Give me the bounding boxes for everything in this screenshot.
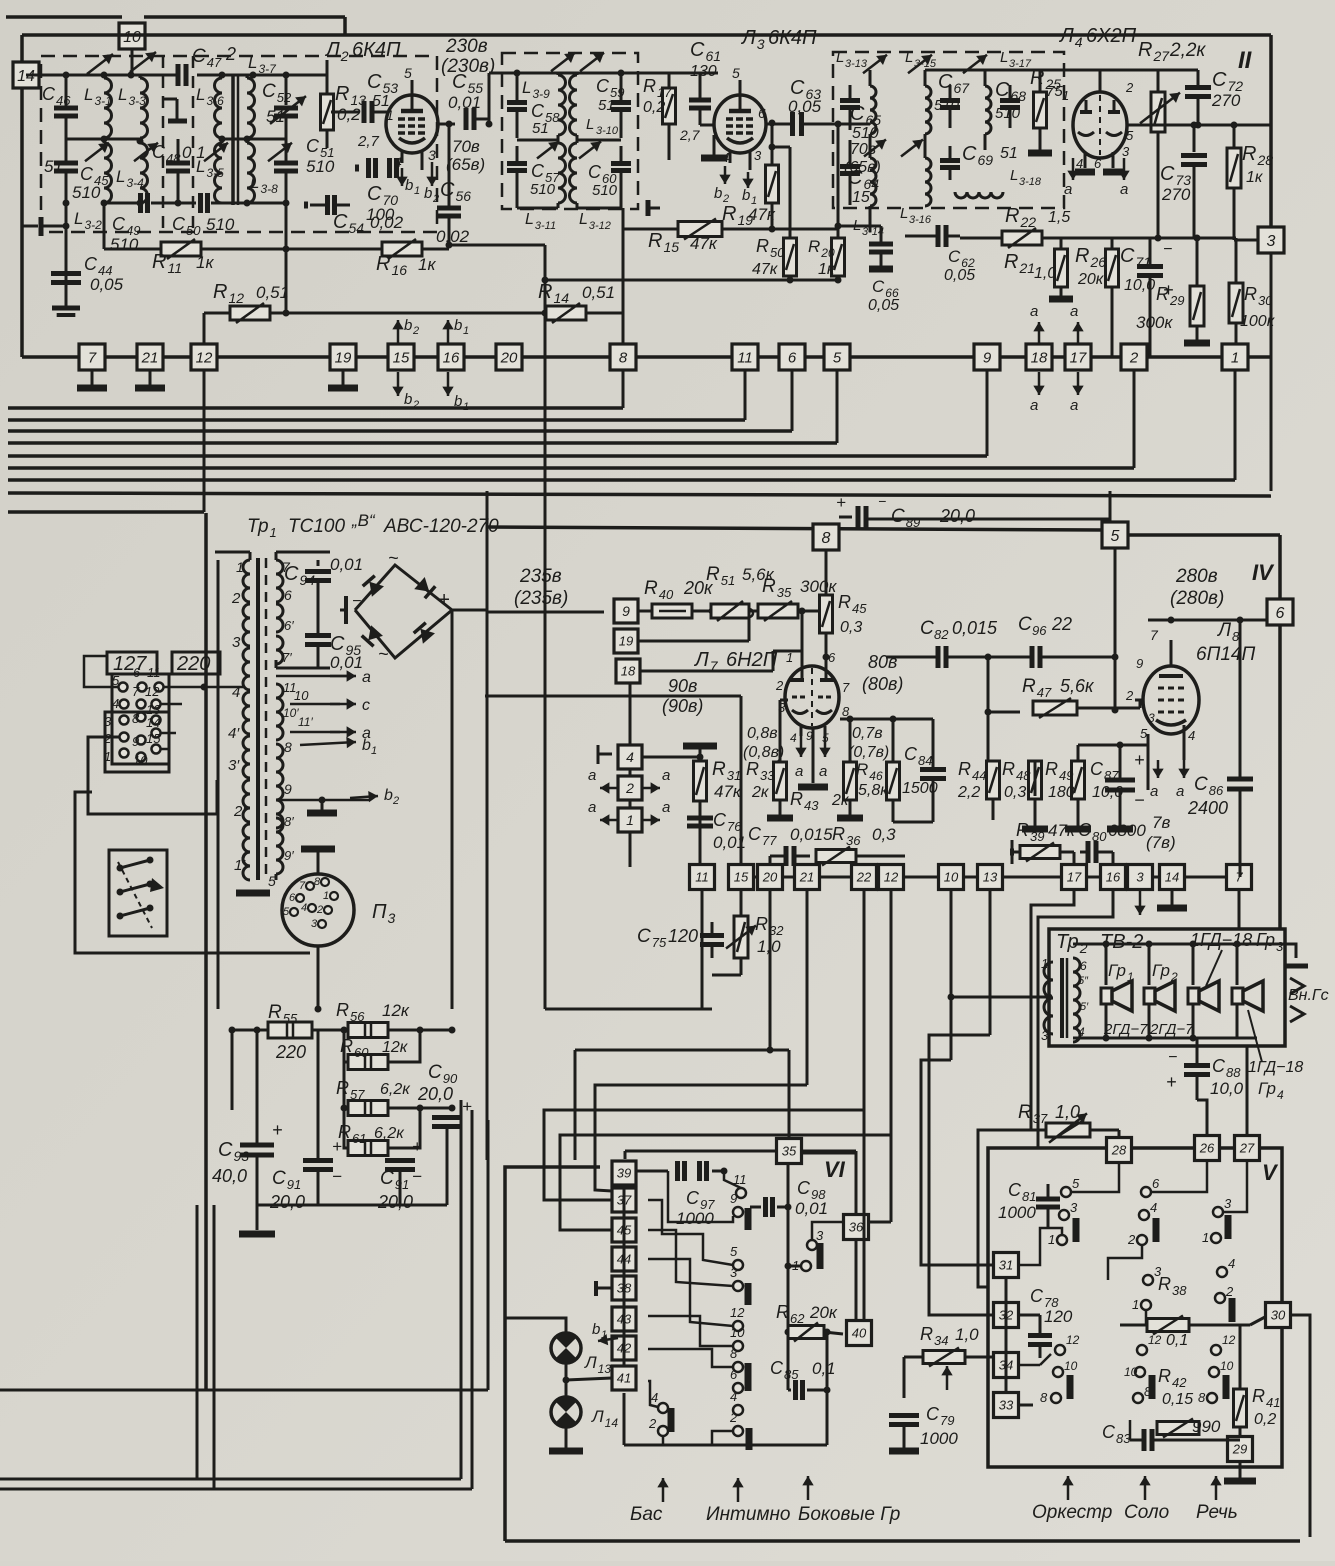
svg-text:12: 12	[1222, 1333, 1236, 1347]
svg-text:„В“: „В“	[351, 511, 376, 530]
switch contact 9 VI	[733, 1207, 743, 1217]
wire box16 top	[1112, 852, 1115, 864]
wire bus to amp box5	[1109, 491, 1112, 522]
svg-text:12: 12	[196, 349, 213, 366]
capacitor C56	[437, 206, 461, 211]
svg-text:11: 11	[695, 870, 709, 885]
Tr1 tap 5	[275, 874, 278, 880]
svg-text:−: −	[1163, 241, 1172, 258]
P3 gnd top	[317, 852, 320, 874]
terminal box 1	[1222, 344, 1248, 370]
svg-text:8: 8	[619, 349, 628, 366]
svg-text:18: 18	[621, 664, 636, 679]
Tr1 winding 9	[276, 786, 283, 828]
terminal box 21	[137, 344, 163, 370]
section II right border	[1269, 35, 1273, 240]
svg-text:21: 21	[799, 870, 814, 885]
capacitor C91 right	[385, 1158, 415, 1163]
svg-text:VI: VI	[824, 1157, 846, 1182]
svg-text:27: 27	[1239, 1141, 1255, 1156]
mains frame left	[75, 792, 310, 953]
svg-text:16: 16	[1106, 870, 1121, 885]
wire box15 up and left	[740, 696, 743, 864]
variable arrow L3-5	[204, 143, 228, 161]
svg-text:4: 4	[1228, 1256, 1235, 1271]
wire P3 to winding	[260, 860, 276, 866]
terminal box 6 amp	[1267, 599, 1293, 625]
svg-text:2: 2	[775, 678, 784, 693]
svg-text:V: V	[1262, 1160, 1279, 1185]
svg-text:1500: 1500	[902, 780, 938, 797]
svg-text:15: 15	[393, 349, 410, 366]
svg-text:a: a	[1030, 303, 1038, 320]
gnd C79	[889, 1448, 919, 1455]
svg-text:1: 1	[786, 650, 793, 665]
a arrows term 17	[1077, 322, 1080, 345]
arrow Orkestr	[1067, 1476, 1070, 1500]
svg-text:12: 12	[730, 1305, 745, 1320]
svg-text:19: 19	[335, 349, 352, 366]
svg-text:3: 3	[1224, 1196, 1232, 1211]
svg-text:2,2: 2,2	[957, 784, 980, 801]
terminal box 1 amp	[618, 808, 642, 832]
svg-text:300к: 300к	[800, 577, 837, 596]
svg-text:270: 270	[1211, 91, 1241, 110]
Tr1 winding 8p	[276, 818, 283, 846]
wire box17 drop jog	[1031, 890, 1074, 1130]
capacitor C59	[611, 100, 631, 105]
wire from box10 down	[131, 48, 134, 75]
svg-text:0,05: 0,05	[90, 275, 124, 294]
a arrows term 18	[1038, 322, 1041, 345]
capacitor C57	[507, 161, 527, 166]
variable arrows det	[863, 55, 887, 73]
bridge output wire right	[451, 609, 453, 611]
wire C77 R36 net	[769, 856, 772, 867]
wire contact 11 stem	[724, 1171, 741, 1188]
terminal box 27	[1235, 1136, 1260, 1161]
svg-text:31: 31	[999, 1258, 1013, 1273]
svg-text:АВС-120-270: АВС-120-270	[383, 516, 499, 537]
amp terminal box 21	[795, 865, 820, 890]
resistor R41	[1234, 1389, 1247, 1427]
capacitor C50	[198, 193, 203, 213]
capacitor C80	[1086, 841, 1091, 863]
svg-text:9′: 9′	[284, 848, 294, 863]
wire to R37 line	[1009, 1129, 1011, 1131]
amp terminal box 16	[1101, 865, 1126, 890]
amp terminal box 22	[852, 865, 877, 890]
capacitor C61	[689, 98, 711, 103]
R32 pot	[734, 916, 748, 958]
lamp wires	[565, 1363, 568, 1397]
wire box12 to box36	[869, 1221, 891, 1224]
svg-text:a: a	[1150, 783, 1158, 800]
wire left long vertical	[204, 513, 208, 1390]
wire amp drop 3	[863, 890, 866, 1321]
frame around selector	[74, 650, 76, 653]
svg-text:b: b	[454, 317, 462, 334]
capacitor C94	[317, 560, 320, 566]
svg-text:70в: 70в	[850, 141, 876, 158]
wire C91 bottom bus	[317, 1170, 320, 1205]
svg-text:Оркестр: Оркестр	[1032, 1502, 1112, 1523]
bus line 4	[8, 441, 837, 445]
svg-text:a: a	[1064, 181, 1072, 198]
svg-text:510: 510	[995, 105, 1021, 122]
svg-text:L: L	[905, 49, 913, 66]
wire term6 drop	[791, 370, 794, 431]
svg-text:5″: 5″	[1078, 975, 1089, 987]
resistor R19	[766, 165, 779, 203]
terminal box 14	[13, 62, 39, 88]
wire x472 vertical	[471, 1110, 474, 1489]
svg-text:510: 510	[592, 182, 618, 199]
coil L3-9	[558, 75, 566, 135]
wire R12-R14 row	[290, 312, 548, 315]
Tr1 primary winding 4	[243, 692, 250, 734]
svg-text:13: 13	[983, 870, 998, 885]
leader line Gr4	[1248, 1010, 1262, 1062]
svg-text:L: L	[836, 49, 844, 66]
wire box17 amp top	[1073, 852, 1076, 864]
coil L3-18 horizontal	[955, 192, 1003, 198]
wire R55 network top link	[343, 1009, 345, 1030]
wire R17 to grid network	[669, 72, 718, 75]
svg-text:5′: 5′	[1080, 1001, 1089, 1013]
capacitor C93	[240, 1143, 274, 1148]
svg-text:3-10: 3-10	[596, 125, 619, 137]
svg-text:11: 11	[733, 1172, 747, 1187]
wire C97 bypass loop	[668, 1171, 733, 1222]
svg-text:(7в): (7в)	[1146, 833, 1176, 852]
wire contact3 to box36	[812, 1222, 843, 1240]
svg-text:6: 6	[1276, 605, 1285, 622]
wire R38 to box30	[1250, 1317, 1265, 1325]
wire bridge plus down	[451, 610, 454, 1009]
wire box10 route to box31	[921, 1060, 993, 1265]
resistor R22	[960, 237, 1005, 240]
tube U4 L7 6N2P	[785, 666, 839, 728]
svg-text:15: 15	[852, 189, 870, 206]
capacitor C49	[137, 200, 144, 207]
Tr1 secondary 6p 7p	[276, 636, 283, 664]
speaker bus bottom	[1073, 1037, 1257, 1040]
terminal box 36	[844, 1215, 869, 1240]
wire x461 vertical	[460, 1100, 463, 1479]
capacitor C55	[464, 108, 469, 130]
amp terminal box 15	[729, 865, 754, 890]
svg-text:0,05: 0,05	[788, 97, 822, 116]
capacitor C77	[784, 846, 789, 866]
speaker section frame	[1049, 929, 1285, 1046]
svg-text:0,01: 0,01	[795, 1199, 828, 1218]
coil L3-8	[247, 143, 255, 203]
switch contact col mid	[1137, 1345, 1147, 1355]
wire row139 left	[66, 138, 140, 141]
svg-text:7: 7	[299, 880, 306, 892]
svg-text:7: 7	[842, 680, 850, 695]
svg-text:235в: 235в	[519, 566, 562, 587]
wire R28 to box3	[1233, 188, 1236, 240]
svg-text:4: 4	[1150, 1200, 1157, 1215]
wire IF2 bottom joins	[517, 139, 558, 142]
svg-text:3-13: 3-13	[845, 58, 868, 70]
svg-text:1: 1	[1041, 956, 1048, 971]
tube U2 L3 6K4P	[714, 95, 766, 153]
selector box A	[112, 674, 169, 764]
capacitor C65	[840, 98, 860, 103]
svg-text:5: 5	[1126, 128, 1134, 143]
coil L3-17	[985, 86, 991, 134]
svg-text:20,0: 20,0	[417, 1084, 453, 1104]
svg-text:b: b	[592, 1321, 600, 1338]
resistor R50	[772, 146, 790, 149]
bus line 3	[8, 429, 792, 433]
svg-text:510: 510	[934, 97, 960, 114]
resistor R12	[204, 312, 232, 315]
arrow Intimno	[737, 1478, 740, 1502]
wire x545 long drop	[544, 313, 547, 1009]
label 220 box	[172, 652, 220, 674]
capacitor C89	[839, 516, 852, 519]
svg-text:L: L	[1010, 167, 1018, 184]
wire box18 to grid1	[640, 670, 773, 673]
wire node P3 bottom	[315, 1006, 322, 1013]
Tr2 sec top lead	[1072, 944, 1074, 958]
coil L3-6	[215, 78, 222, 138]
wire contact1 net	[788, 1265, 806, 1268]
svg-text:3: 3	[104, 714, 112, 729]
wire left frame x206 bottom	[197, 1204, 214, 1206]
power to bottom links	[460, 1099, 462, 1101]
svg-text:−: −	[412, 1167, 422, 1186]
svg-text:47к: 47к	[752, 261, 779, 278]
svg-text:80в: 80в	[868, 652, 897, 672]
Tr2 secondary	[1073, 958, 1080, 1000]
svg-text:8: 8	[822, 530, 831, 547]
terminal box 41	[612, 1366, 636, 1390]
resistor R45	[820, 595, 833, 633]
dashed box det coils	[833, 52, 1064, 208]
svg-text:510: 510	[530, 181, 556, 198]
wire C88 down to box26	[1197, 1100, 1207, 1135]
resistor R44	[987, 761, 1000, 799]
svg-text:0,15: 0,15	[1162, 1391, 1193, 1408]
capacitor C71	[1149, 238, 1152, 264]
wire below box36	[855, 1240, 858, 1320]
capacitor C98	[750, 1206, 761, 1209]
terminal box 44	[612, 1247, 636, 1271]
wire bottom line 2	[0, 1488, 472, 1491]
wire switch common bottom	[624, 1444, 827, 1447]
terminal box 45	[612, 1218, 636, 1242]
tube L7 heater leads	[800, 726, 803, 736]
svg-text:0,05: 0,05	[944, 267, 975, 284]
wire R44 R48 top join	[992, 745, 994, 761]
variable capacitor C52	[285, 75, 288, 105]
svg-text:−: −	[878, 493, 886, 509]
svg-text:b: b	[384, 787, 393, 804]
svg-text:510: 510	[852, 125, 879, 142]
svg-text:~: ~	[378, 644, 389, 664]
svg-text:Бас: Бас	[630, 1504, 663, 1525]
svg-text:a: a	[362, 669, 371, 686]
wire x214 vertical	[213, 1205, 216, 1489]
rectifier bridge diamond	[355, 565, 452, 658]
svg-text:−: −	[332, 1167, 342, 1186]
resistor R56	[344, 1029, 352, 1031]
capacitor C47	[176, 64, 181, 86]
core between L3-6 L3-7	[231, 74, 235, 205]
svg-text:ТС100: ТС100	[288, 516, 345, 537]
svg-text:127: 127	[113, 653, 147, 675]
svg-text:b: b	[404, 317, 412, 334]
svg-text:1: 1	[1048, 1232, 1055, 1247]
svg-text:6,2к: 6,2к	[380, 1081, 411, 1098]
svg-text:12: 12	[1148, 1333, 1162, 1347]
svg-text:5: 5	[268, 873, 276, 889]
amp terminal box 11	[690, 865, 715, 890]
capacitor C97 pair	[675, 1161, 680, 1181]
svg-text:2к: 2к	[831, 792, 850, 809]
wire IV bottom to VI	[486, 1160, 488, 1167]
Tr1 primary winding 2	[243, 604, 250, 646]
wire bottom line 1	[0, 1478, 461, 1481]
svg-text:12к: 12к	[382, 1039, 409, 1056]
svg-text:1к: 1к	[818, 261, 836, 278]
svg-text:5: 5	[732, 65, 740, 81]
b1 arrow switch	[598, 1338, 618, 1341]
svg-text:9: 9	[284, 781, 292, 797]
wire R55 left drop	[231, 1029, 233, 1031]
Tr1 primary top lead	[249, 552, 252, 560]
section IV right border	[1278, 535, 1282, 620]
svg-text:12: 12	[145, 684, 160, 699]
svg-text:0,2: 0,2	[337, 105, 361, 124]
svg-text:51: 51	[532, 120, 549, 137]
selector box B	[105, 712, 169, 772]
svg-text:51: 51	[266, 107, 285, 126]
svg-text:2: 2	[412, 325, 419, 337]
svg-text:5: 5	[1111, 528, 1120, 545]
svg-text:2: 2	[625, 780, 634, 796]
svg-text:100к: 100к	[1240, 313, 1276, 330]
svg-text:1000: 1000	[920, 1429, 958, 1448]
svg-text:1,5: 1,5	[1048, 209, 1070, 226]
svg-text:33: 33	[999, 1398, 1014, 1413]
wire bottom left horiz 2	[0, 1389, 488, 1392]
wire x827 vertical	[826, 1332, 829, 1445]
terminal box 9	[974, 344, 1000, 370]
lamp L14	[551, 1397, 581, 1427]
svg-text:75: 75	[1046, 83, 1063, 100]
resistor R16	[340, 248, 382, 251]
terminal box 2 amp	[618, 776, 642, 800]
arrow Solo	[1144, 1476, 1147, 1500]
wire x623 vertical	[622, 208, 625, 344]
svg-text:4: 4	[730, 1389, 737, 1404]
capacitor C51	[285, 118, 288, 161]
bridge diode 1	[363, 576, 384, 597]
svg-text:3-16: 3-16	[909, 214, 932, 226]
bridge diode 3	[362, 625, 383, 646]
section II left border	[20, 35, 24, 357]
svg-text:1: 1	[1231, 349, 1239, 366]
svg-text:7′: 7′	[282, 650, 292, 665]
wire mid node	[420, 1029, 452, 1032]
svg-text:0,01: 0,01	[330, 555, 363, 574]
svg-text:230в: 230в	[445, 36, 488, 57]
coil L3-1	[104, 78, 112, 138]
svg-text:6Н2П: 6Н2П	[726, 649, 778, 671]
svg-text:6: 6	[133, 665, 141, 680]
wire amp drop 5	[950, 890, 953, 1060]
svg-text:a: a	[819, 763, 827, 780]
Tr1 bottom ground	[249, 880, 251, 888]
svg-text:120: 120	[668, 926, 698, 946]
svg-text:1ГД−18: 1ГД−18	[1190, 930, 1252, 950]
svg-text:15: 15	[734, 870, 749, 885]
terminal box 15	[388, 344, 414, 370]
svg-text:b: b	[404, 391, 412, 408]
switch contact 5 VI	[733, 1260, 743, 1270]
ground C44	[65, 298, 68, 308]
capacitor C95	[305, 633, 331, 638]
svg-text:9: 9	[983, 349, 992, 366]
svg-text:28: 28	[1111, 1143, 1127, 1158]
Tr1 primary winding 1-2	[243, 560, 250, 602]
wire box7 amp right	[1252, 876, 1280, 878]
resistor R21	[1055, 249, 1068, 287]
Tr2 primary	[1044, 962, 1053, 1034]
svg-text:0,015: 0,015	[790, 825, 833, 844]
coil L3-4	[140, 143, 148, 203]
C48 top bar	[168, 119, 187, 124]
wire amp drop 6	[989, 890, 992, 1035]
wire box11 top	[701, 757, 703, 864]
svg-text:17: 17	[1067, 870, 1082, 885]
wire amp drop 0	[701, 890, 704, 1009]
resistor R36	[816, 850, 856, 863]
gnd stub winding9	[321, 800, 324, 810]
svg-text:6: 6	[758, 105, 766, 121]
wire y280 bus	[545, 279, 838, 282]
svg-text:16: 16	[443, 349, 460, 366]
svg-text:6К4П: 6К4П	[352, 39, 401, 61]
coil L3-2	[104, 143, 112, 203]
svg-text:(80в): (80в)	[862, 674, 903, 694]
svg-text:a: a	[588, 767, 596, 784]
dashed box input coils	[41, 56, 437, 232]
svg-text:0,8в: 0,8в	[747, 725, 778, 742]
svg-text:120: 120	[1044, 1307, 1073, 1326]
svg-text:+: +	[438, 589, 450, 611]
svg-text:(90в): (90в)	[662, 696, 703, 716]
wire term11 drop	[744, 370, 747, 420]
svg-text:20к: 20к	[809, 1303, 838, 1322]
wire x197 vertical	[196, 1205, 199, 1479]
terminal box 28	[1107, 1138, 1132, 1163]
svg-text:a: a	[1030, 397, 1038, 414]
terminal box 11	[732, 344, 758, 370]
svg-text:5: 5	[833, 349, 842, 366]
tube L8 grid lead	[1135, 699, 1143, 702]
cathode center bar	[812, 728, 815, 783]
svg-text:20,0: 20,0	[269, 1192, 305, 1212]
wire 235v node	[452, 609, 487, 612]
speaker bus top	[1073, 943, 1257, 946]
